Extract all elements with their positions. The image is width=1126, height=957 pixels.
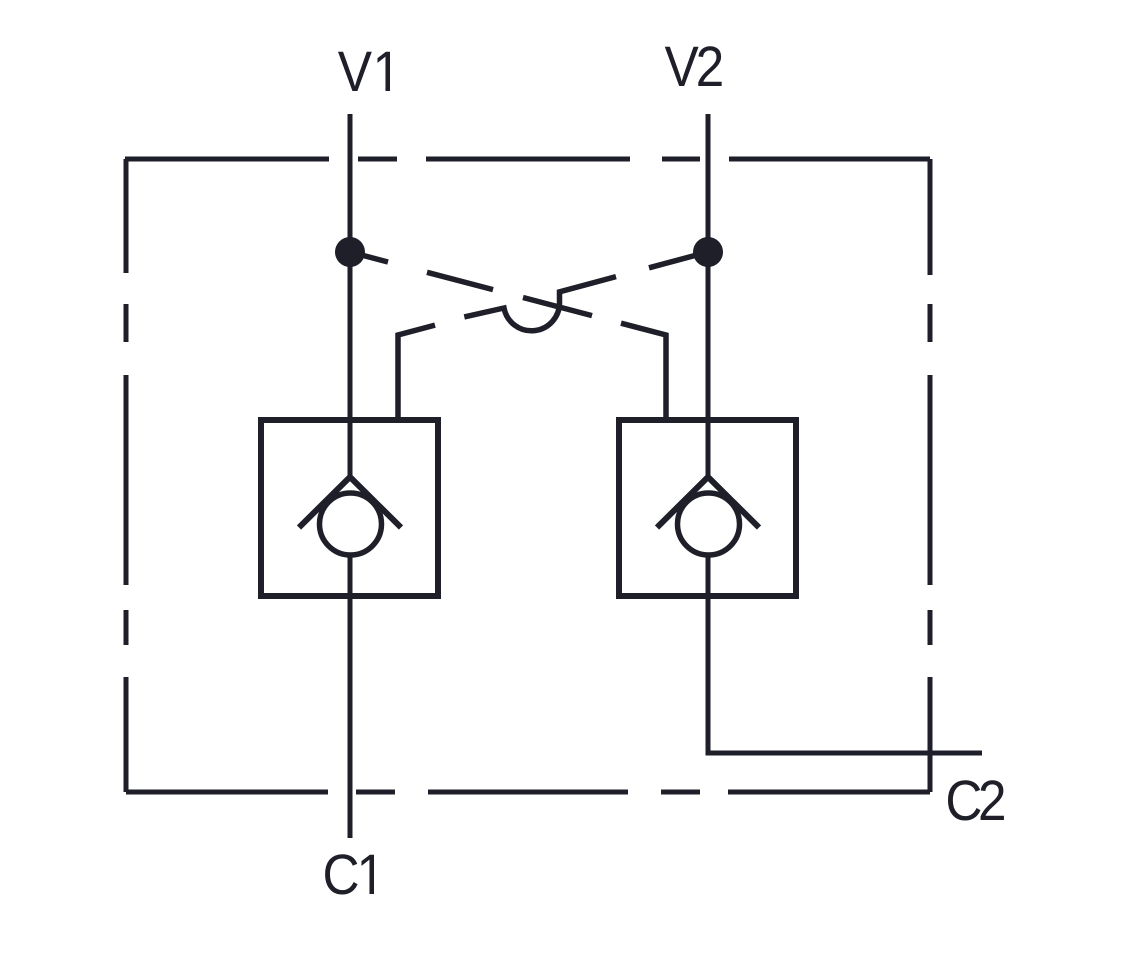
label C1 xyxy=(325,854,374,894)
check valve CV2 ball xyxy=(678,493,740,555)
wire port V2 down to check valve CV2 seat apex xyxy=(706,114,711,477)
valve body enclosure bottom side (dashed) xyxy=(126,790,930,795)
label V2 xyxy=(665,46,722,86)
valve body enclosure left side (dashed) xyxy=(124,159,129,792)
wire port V1 down to check valve CV1 seat apex xyxy=(348,114,353,477)
check valve CV2 seat (V wings) xyxy=(657,477,759,528)
check valve CV2 body (square) xyxy=(619,420,796,596)
check valve CV1 seat (V wings) xyxy=(299,477,401,528)
valve body enclosure right side (dashed) xyxy=(928,159,933,792)
label V1 xyxy=(338,52,390,91)
check valve CV1 body (square) xyxy=(261,420,438,596)
pilot line from V1 junction to CV2 pilot (dashed diagonal, solid tail into CV2 box) xyxy=(350,252,666,420)
junction dot on V1 line (node V1) xyxy=(335,237,365,267)
pilot line from V2 junction to CV1 pilot (dashed diagonal with hop over, solid tail into CV1 box) xyxy=(398,252,708,420)
wire check valve CV1 ball bottom down to port C1 xyxy=(348,557,353,838)
junction dot on V2 line (node V2) xyxy=(693,237,723,267)
label C2 xyxy=(948,780,1004,820)
valve body enclosure top side (dashed) xyxy=(125,157,930,162)
wire check valve CV2 ball bottom down and right to port C2 xyxy=(708,557,982,753)
check valve CV1 ball xyxy=(320,493,382,555)
